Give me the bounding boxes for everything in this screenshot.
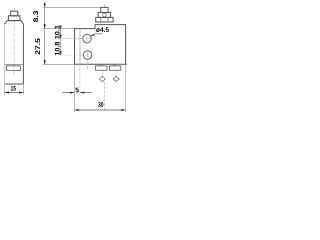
dim line x=44.7 (8.3 and 27.5)	[44, 2, 46, 64]
side view centerline	[13, 8, 15, 76]
dim 30 extension line left lower	[73, 96, 75, 111]
dim line x=60.7 (10.1 and 10.8)	[60, 26, 62, 56]
dim 15 extension lines	[5, 84, 24, 95]
terminal A diamond	[99, 76, 105, 81]
side view collar	[8, 16, 20, 21]
arrow at y=7.5	[44, 3, 46, 7]
extension line y=64.4	[43, 63, 75, 65]
sensor washer	[96, 17, 113, 22]
dim 30 right arrow	[121, 109, 125, 111]
svg-text:27.5: 27.5	[35, 38, 42, 55]
sensor washer divider right	[107, 17, 109, 22]
hole 2	[83, 51, 92, 60]
svg-text:30: 30	[98, 102, 104, 109]
sensor nut	[98, 13, 110, 18]
dim 30 extension line right	[125, 64, 127, 111]
side view body right edge	[22, 24, 24, 84]
side view body bottom edge	[5, 83, 24, 85]
hole leader line	[91, 34, 103, 36]
dim 5 left arrow line	[63, 92, 75, 94]
dim 30 left arrow	[74, 109, 78, 111]
side view foot rect	[6, 66, 20, 71]
sensor centerline tick above cap	[103, 5, 105, 8]
dim 5 extension line solid	[73, 64, 75, 96]
side view body left edge	[4, 24, 6, 84]
svg-text:ø4.5: ø4.5	[96, 27, 109, 34]
arrow at y=64.4	[44, 60, 46, 64]
svg-text:15: 15	[10, 86, 16, 93]
side view shoulder	[5, 21, 24, 25]
hole 2 horizontal centerline	[59, 54, 94, 56]
svg-text:10.1: 10.1	[54, 25, 61, 39]
terminal A stub	[101, 70, 103, 76]
terminal B diamond	[113, 76, 119, 81]
arrow at y=56.3	[60, 51, 62, 55]
dim 5 left arrowhead	[70, 92, 74, 94]
extension line y=7.5 to cap top	[43, 7, 101, 9]
bracket bend line	[79, 29, 81, 65]
hole 1 horizontal centerline	[59, 38, 94, 40]
extension line y=28.6	[43, 28, 75, 30]
bracket plate outline	[75, 25, 128, 65]
terminal B stub	[115, 70, 117, 76]
dim 30 line	[74, 109, 125, 111]
sensor washer divider left	[100, 17, 102, 22]
dim 5 right arrowhead	[80, 92, 84, 94]
foot B	[110, 66, 121, 70]
svg-text:8.3: 8.3	[33, 10, 40, 22]
side view plunger cap	[11, 11, 18, 16]
arrow at y=28.6	[44, 24, 46, 28]
dim 15 line	[5, 92, 24, 94]
dim 15 left arrow	[5, 92, 9, 94]
hole 1	[83, 34, 92, 43]
sensor cap	[101, 7, 108, 12]
svg-text:5: 5	[75, 87, 79, 94]
foot B stems	[114, 64, 116, 66]
hole 1 vertical centerline	[86, 33, 88, 44]
arrow at y=38.6	[60, 35, 62, 39]
hole leader arrowhead	[90, 34, 94, 36]
arrow at y=28.7	[60, 26, 62, 30]
side view plate line	[5, 63, 24, 65]
dim 15 right arrow	[19, 92, 23, 94]
svg-text:10.8: 10.8	[54, 41, 61, 55]
sensor centerline lower	[103, 82, 105, 110]
sensor nut circle	[103, 13, 107, 17]
dim 5 right arrow line	[80, 92, 92, 94]
foot A	[96, 66, 108, 70]
hole 2 vertical centerline	[87, 50, 89, 70]
foot A stems	[100, 64, 102, 66]
dim 5 extension line dashed (bend)	[79, 64, 81, 96]
